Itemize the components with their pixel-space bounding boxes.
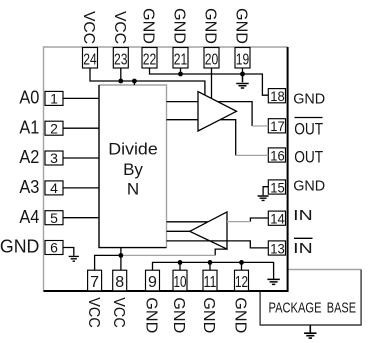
pin 18 box [268,88,285,104]
op-amp output buffer U2 [198,92,237,131]
wire pin 14 IN to input buffer [227,218,268,222]
pin 19 box [235,48,250,69]
svg-text:13: 13 [270,240,285,256]
svg-text:GND: GND [293,179,325,195]
wire GND rail (pins 22,21,19 to pin 18) [150,68,269,95]
pin 7 box [88,270,102,291]
pin 4 box [45,180,63,196]
svg-text:23: 23 [114,52,128,69]
wire input buffer base to VCC node [121,249,227,255]
label GND (pin 22) [140,8,157,44]
svg-text:A0: A0 [19,87,39,108]
pin 21 box [173,48,188,69]
svg-text:17: 17 [270,118,285,134]
wire A1 pin 2 to divider [63,127,99,129]
svg-text:N: N [127,180,139,199]
pin 13 box [268,240,285,256]
wire output buffer to pin 17 OUTbar [218,102,269,126]
wire pin 20 GND to output buffer [211,68,213,98]
svg-text:OUT: OUT [294,149,323,167]
svg-text:A3: A3 [19,176,39,197]
pin 9 box [146,270,160,291]
svg-text:IN: IN [293,241,313,257]
svg-text:A1: A1 [19,116,39,137]
svg-text:GND: GND [293,92,325,108]
label A4 (pin 5) [19,206,39,227]
pin 17 box [268,118,285,134]
pin 16 box [268,147,285,163]
pin 8 box [113,270,127,291]
package base box [260,270,361,326]
svg-text:VCC: VCC [111,11,128,44]
label A0 (pin 1) [19,87,39,108]
wire pin 15 to ground [263,187,268,196]
svg-text:12: 12 [235,274,248,291]
svg-text:GND: GND [233,8,250,44]
pin 1 box [45,91,63,107]
svg-text:BASE: BASE [327,301,356,317]
svg-text:11: 11 [204,274,217,291]
label IN (inverted) [293,238,313,257]
label PACKAGE BASE [269,301,357,317]
label GND (pin 9) [143,297,160,333]
svg-text:GND: GND [0,236,39,257]
pin 12 box [235,270,249,291]
svg-text:5: 5 [50,210,58,226]
label VCC (pin 23) [111,11,128,44]
svg-text:PACKAGE: PACKAGE [269,301,322,317]
wire pin 6 to ground [63,248,74,256]
label GND (pin 19) [233,8,250,44]
svg-text:GND: GND [171,8,188,44]
svg-text:2: 2 [50,120,58,136]
pin 20 box [204,48,219,69]
divide-by-N block U1 [99,85,167,248]
svg-text:10: 10 [174,274,187,291]
op-amp input buffer U3 [190,212,227,249]
label GND [293,179,325,195]
svg-text:24: 24 [83,52,97,69]
ground (top, at pin 19 junction) [236,74,248,88]
label GND (pin 12) [232,297,249,333]
svg-text:GND: GND [170,297,187,333]
svg-text:7: 7 [90,274,99,291]
label VCC (pin 7) [85,297,102,328]
pin 5 box [45,210,63,226]
label VCC (pin 8) [110,297,127,328]
svg-text:OUT: OUT [294,120,323,138]
ground (pin 6) [69,256,79,261]
svg-text:GND: GND [200,297,217,333]
label GND (pin 21) [171,8,188,44]
svg-text:GND: GND [202,8,219,44]
label OUT (inverted) [294,118,323,139]
label GND (pin 20) [202,8,219,44]
label A3 (pin 4) [19,176,39,197]
svg-text:3: 3 [50,150,58,166]
wire A3 pin 4 to divider [63,187,99,189]
wire VCC pins 7,8 to divider [95,248,124,271]
pin 11 box [203,270,217,291]
pin 3 box [45,150,63,166]
svg-text:VCC: VCC [85,297,102,328]
label GND (pin 11) [200,297,217,333]
wire divider to output buffer input 1 [167,101,199,103]
ground (package base) [304,325,316,338]
svg-text:VCC: VCC [110,297,127,328]
svg-text:GND: GND [140,8,157,44]
pin 15 box [268,179,285,195]
pin 22 box [142,48,157,69]
wire A0 pin 1 to divider [63,97,99,99]
wire A2 pin 3 to divider [63,157,99,159]
svg-text:By: By [123,160,143,179]
label GND [293,92,325,108]
wire divider to output buffer input 2 [167,119,199,121]
ground (bottom right inside package) [267,279,279,284]
svg-text:1: 1 [50,91,58,107]
pin 24 box [83,48,98,69]
svg-text:18: 18 [270,88,285,104]
svg-text:22: 22 [143,52,157,69]
wire input buffer to divider (line 2) [167,230,190,232]
wire A4 pin 5 to divider [63,217,99,219]
svg-text:19: 19 [236,52,250,69]
wire GND rail (pins 9,10,11,12) [153,260,274,279]
label GND (pin 10) [170,297,187,333]
svg-text:GND: GND [232,297,249,333]
label GND (pin 6) [0,236,39,257]
svg-text:Divide: Divide [108,139,158,158]
wire input buffer to divider (line 1) [167,221,208,223]
package outline (24-lead) [44,47,288,291]
svg-text:8: 8 [115,274,124,291]
svg-text:A2: A2 [19,146,39,167]
label OUT [294,149,323,167]
label IN [293,208,313,224]
svg-text:GND: GND [143,297,160,333]
wire pin 13 INbar through buffer to divider [167,241,269,248]
ground (pin 15) [258,196,269,200]
svg-text:21: 21 [174,52,188,69]
label A2 (pin 3) [19,146,39,167]
wire output buffer to pin 16 OUT [220,120,268,156]
svg-text:16: 16 [270,147,285,163]
svg-text:6: 6 [50,240,58,256]
svg-text:VCC: VCC [80,11,97,44]
svg-text:14: 14 [270,211,285,227]
svg-text:15: 15 [270,179,285,195]
pin 10 box [173,270,187,291]
wire VCC rail (pins 24,23 to divider and output buffer) [90,68,205,95]
pin 23 box [113,48,128,69]
svg-text:20: 20 [205,52,219,69]
svg-text:IN: IN [293,208,313,224]
svg-text:A4: A4 [19,206,39,227]
label VCC (pin 24) [80,11,97,44]
pin 6 box [45,240,63,256]
pin 2 box [45,120,63,136]
label A1 (pin 2) [19,116,39,137]
svg-text:9: 9 [148,274,157,291]
pin 14 box [268,211,285,227]
svg-text:4: 4 [50,180,58,196]
